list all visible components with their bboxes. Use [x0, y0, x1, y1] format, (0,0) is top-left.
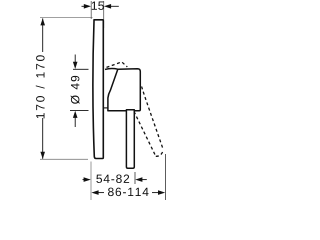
dimension o49 ticks — [73, 68, 89, 70]
label 86-114 — [108, 188, 148, 197]
dimension 170/170 vertical line — [42, 18, 44, 52]
handle hub + sleeve body — [108, 69, 140, 111]
escutcheon plate (side view) — [93, 20, 103, 159]
dimension 15 ticks — [90, 1, 92, 19]
arrow down (170 dim bottom) — [40, 152, 45, 159]
tick for 54-82 right (x=135) — [134, 172, 136, 184]
sleeve top arc (plate to hub) — [105, 67, 118, 70]
dashed lever rotated: tip cap — [156, 150, 164, 157]
15 left arrow (points right) — [82, 5, 86, 7]
label 15 — [92, 2, 104, 10]
dim 86-114: right arrow (points right, inside) — [152, 192, 159, 194]
extension line bottom (plate bottom, y=159.3) — [40, 158, 88, 160]
dim 54-82: right arrow (points left, outside) — [142, 179, 147, 181]
label 54-82 — [96, 175, 129, 184]
o49 top arrow (points down) — [74, 55, 76, 63]
label 170 / 170 — [36, 55, 45, 118]
dim 54-82: left arrow (points right, outside) — [83, 179, 87, 181]
dashed lever rotated: right edge — [142, 87, 164, 150]
o49 bottom arrow (points up) — [74, 118, 76, 128]
extension line top (plate top, y=17.6) — [40, 17, 93, 19]
extension line bottom-left (x=91, plate front) — [90, 162, 92, 201]
15 right arrow (points left) — [111, 5, 119, 7]
lever handle (solid, pointing down) — [126, 110, 134, 169]
extension line right (x=165.5, dashed lever reach) — [165, 154, 167, 200]
sleeve small step to plate — [104, 107, 108, 109]
label o49 — [71, 76, 80, 104]
dashed lever rotated: left edge — [134, 112, 156, 157]
dim 86-114: left arrow (points left, inside) — [98, 192, 104, 194]
dashed hub tilted (wedge above) — [107, 62, 128, 68]
arrow up (170 dim top) — [40, 18, 45, 25]
